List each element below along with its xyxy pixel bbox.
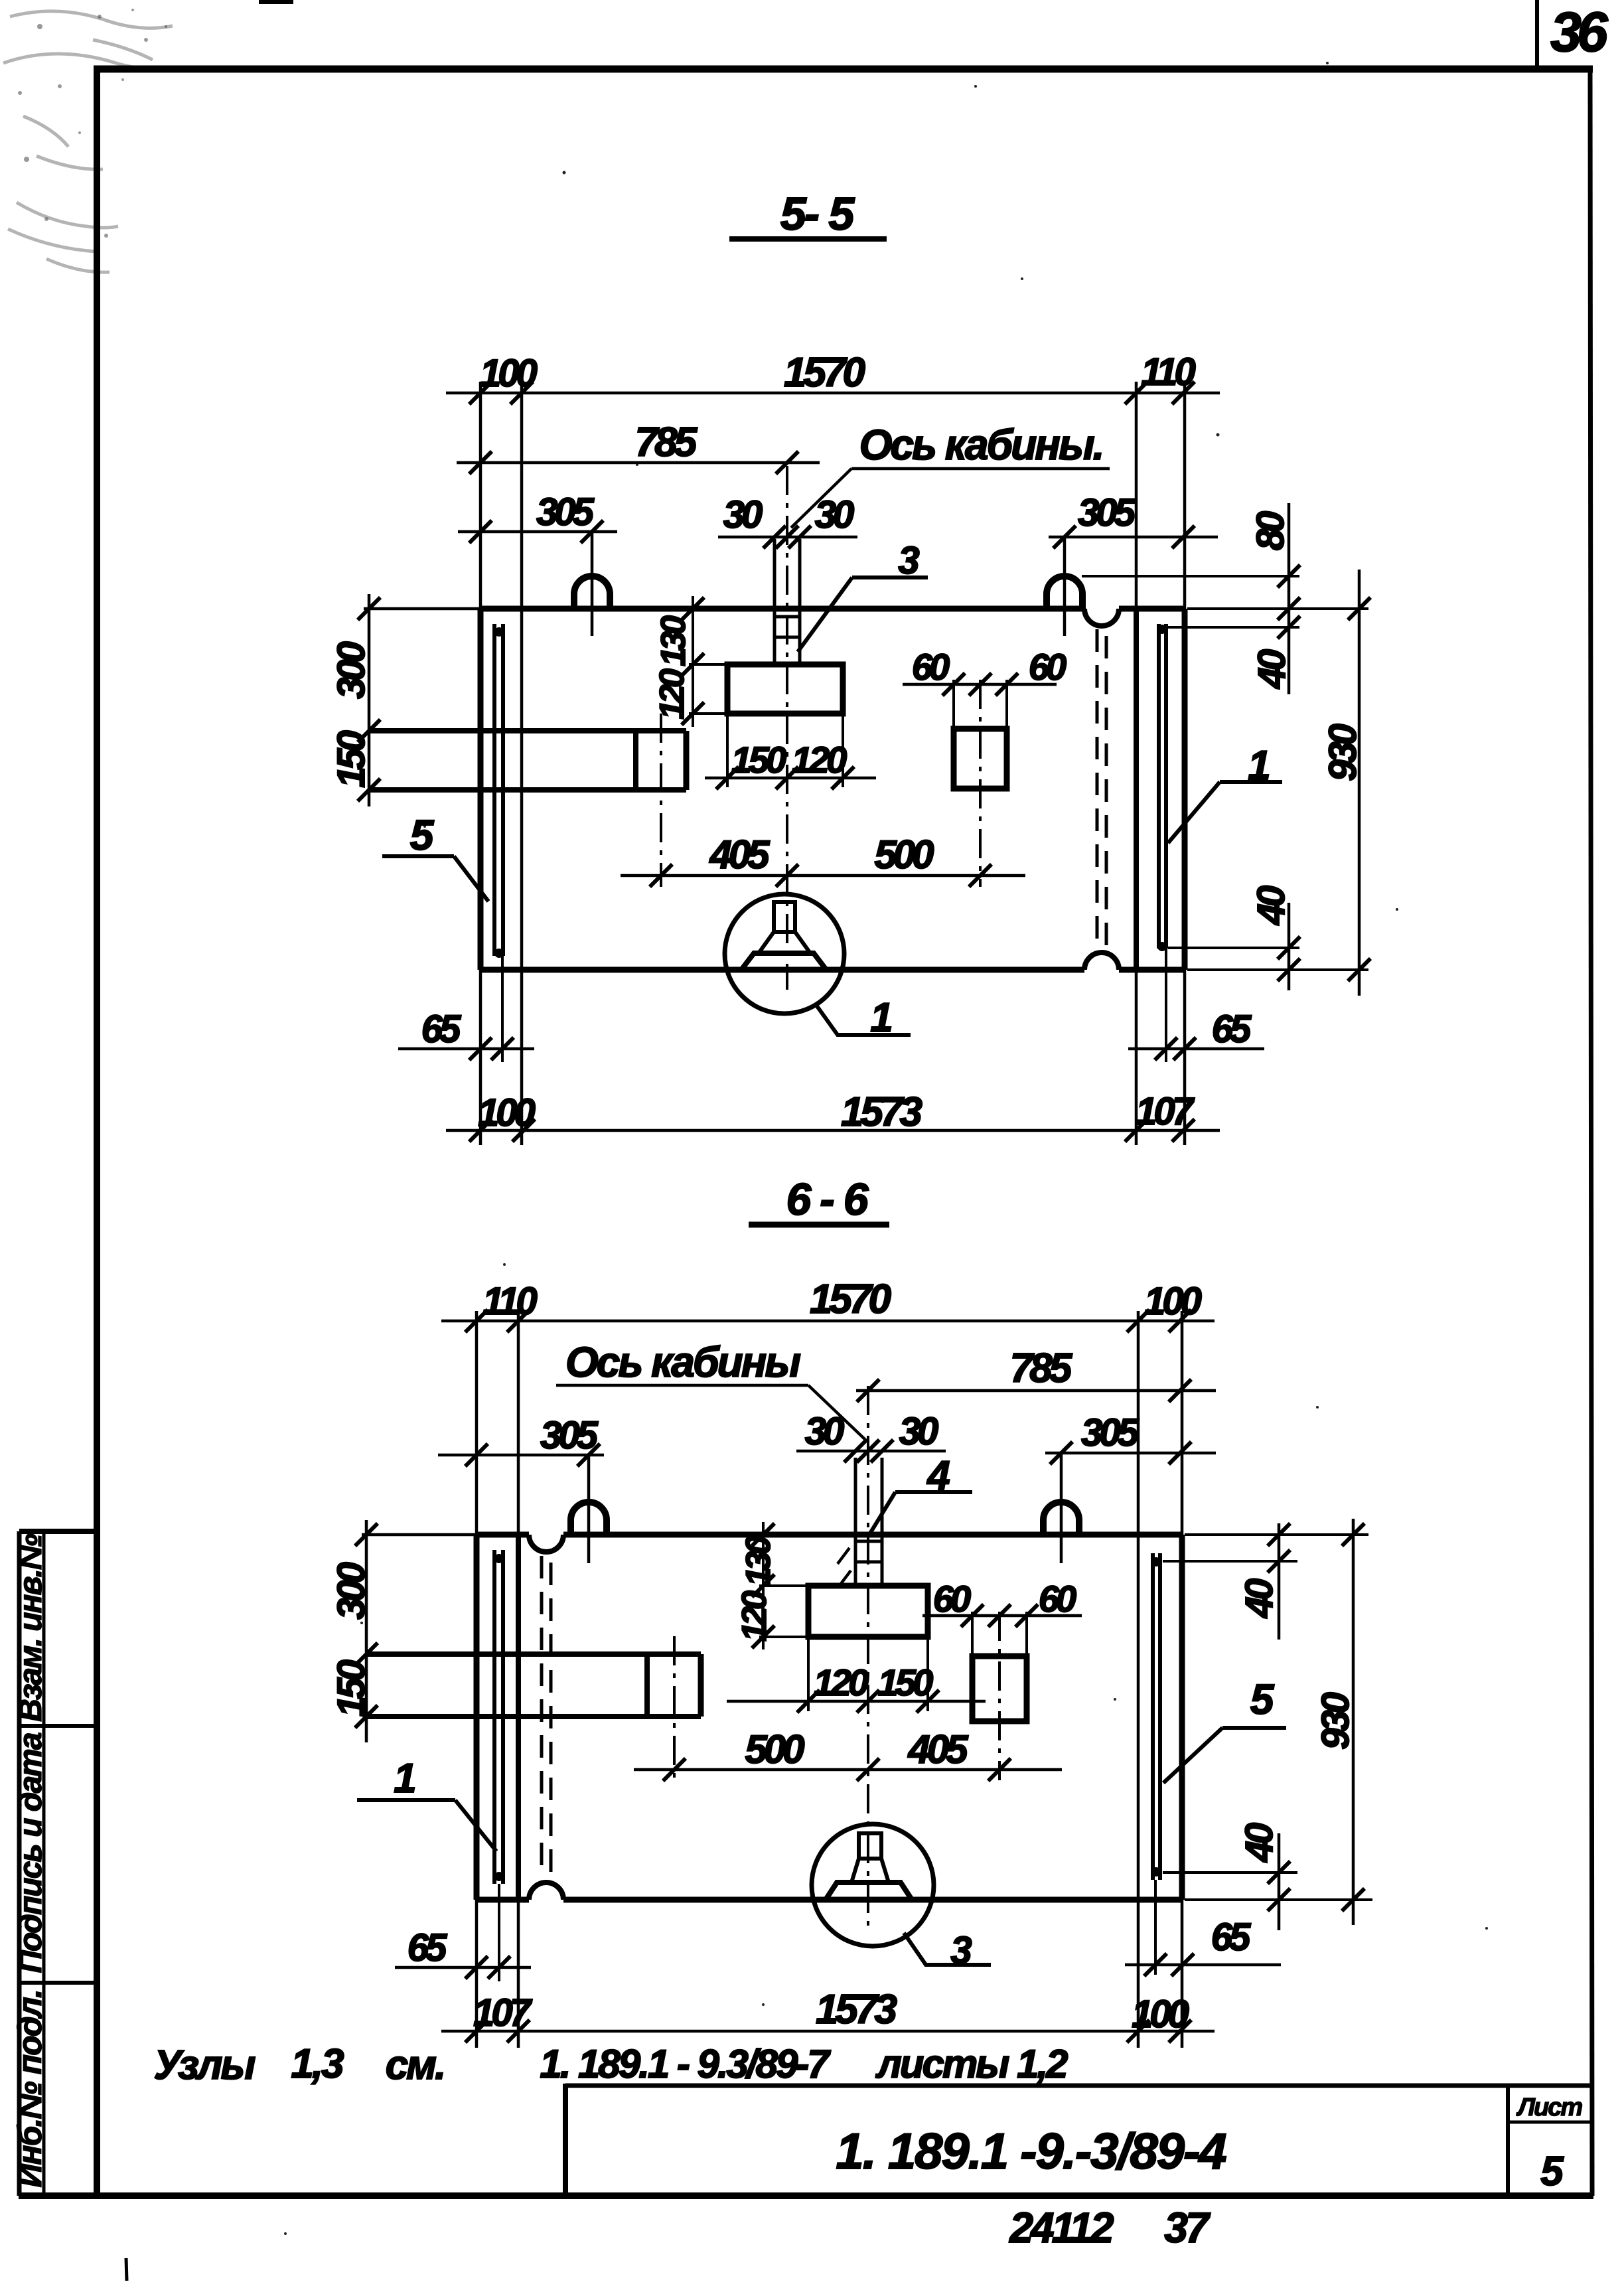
svg-text:24112: 24112 — [1009, 2204, 1114, 2252]
svg-text:Взам. инв.№: Взам. инв.№ — [13, 1533, 48, 1722]
svg-text:405: 405 — [907, 1727, 969, 1772]
svg-text:305: 305 — [1078, 491, 1136, 534]
svg-text:30: 30 — [805, 1410, 844, 1453]
svg-text:100: 100 — [480, 352, 538, 395]
svg-text:100: 100 — [478, 1091, 536, 1134]
svg-text:см.: см. — [386, 2042, 445, 2088]
svg-text:130: 130 — [654, 615, 693, 666]
svg-text:40: 40 — [1250, 649, 1293, 689]
svg-text:305: 305 — [1081, 1411, 1140, 1454]
svg-text:65: 65 — [407, 1926, 447, 1969]
svg-text:107: 107 — [1136, 1090, 1195, 1133]
svg-text:6 - 6: 6 - 6 — [786, 1174, 869, 1225]
svg-text:40: 40 — [1238, 1823, 1281, 1863]
svg-text:Ось кабины: Ось кабины — [565, 1338, 800, 1386]
svg-text:30: 30 — [899, 1410, 938, 1453]
svg-text:60: 60 — [933, 1578, 971, 1620]
svg-text:60: 60 — [1039, 1578, 1076, 1620]
svg-text:Ось кабины.: Ось кабины. — [859, 421, 1103, 469]
svg-text:150: 150 — [330, 1659, 373, 1717]
svg-text:500: 500 — [874, 832, 934, 877]
svg-text:110: 110 — [1141, 350, 1195, 394]
svg-text:300: 300 — [330, 1562, 373, 1620]
svg-text:1: 1 — [394, 1756, 415, 1801]
svg-text:305: 305 — [540, 1414, 599, 1457]
svg-text:Лист: Лист — [1516, 2094, 1582, 2121]
svg-text:107: 107 — [473, 1991, 533, 2034]
svg-text:785: 785 — [635, 420, 698, 465]
svg-text:110: 110 — [482, 1280, 537, 1323]
svg-text:65: 65 — [421, 1008, 461, 1051]
svg-text:1. 189.1 - 9.3/89-7: 1. 189.1 - 9.3/89-7 — [540, 2042, 831, 2086]
svg-text:5- 5: 5- 5 — [780, 188, 855, 240]
svg-text:500: 500 — [745, 1727, 804, 1772]
svg-text:150: 150 — [731, 739, 786, 781]
svg-text:1573: 1573 — [841, 1089, 922, 1135]
svg-text:1. 189.1 -9.-3/89-4: 1. 189.1 -9.-3/89-4 — [836, 2123, 1226, 2180]
svg-text:1: 1 — [870, 995, 891, 1041]
svg-text:36: 36 — [1550, 1, 1609, 63]
svg-text:40: 40 — [1238, 1578, 1281, 1618]
svg-text:Инб.№ подл.: Инб.№ подл. — [11, 1990, 48, 2187]
svg-text:305: 305 — [536, 491, 595, 534]
svg-text:37: 37 — [1164, 2204, 1211, 2252]
svg-text:65: 65 — [1211, 1916, 1251, 1959]
svg-text:80: 80 — [1249, 511, 1292, 550]
svg-text:100: 100 — [1144, 1280, 1202, 1323]
svg-text:30: 30 — [815, 493, 854, 536]
svg-text:300: 300 — [330, 641, 373, 699]
svg-text:Подпись и дата: Подпись и дата — [13, 1732, 48, 1973]
svg-text:листы 1,2: листы 1,2 — [875, 2042, 1068, 2086]
svg-text:60: 60 — [912, 646, 950, 688]
svg-text:930: 930 — [1314, 1692, 1357, 1750]
svg-text:Узлы: Узлы — [154, 2042, 256, 2088]
svg-text:405: 405 — [709, 832, 771, 877]
svg-text:785: 785 — [1010, 1345, 1073, 1391]
svg-text:30: 30 — [723, 493, 763, 536]
svg-text:120: 120 — [792, 739, 847, 781]
svg-text:150: 150 — [878, 1661, 933, 1703]
svg-text:60: 60 — [1029, 646, 1067, 688]
svg-text:130: 130 — [739, 1535, 778, 1586]
svg-text:65: 65 — [1212, 1008, 1252, 1051]
svg-text:1,3: 1,3 — [291, 2041, 344, 2087]
svg-text:100: 100 — [1132, 1993, 1189, 2036]
svg-text:120: 120 — [735, 1590, 774, 1642]
svg-text:40: 40 — [1250, 885, 1293, 925]
svg-text:3: 3 — [950, 1929, 972, 1972]
svg-text:120: 120 — [653, 668, 692, 720]
svg-text:1570: 1570 — [810, 1276, 891, 1322]
svg-text:1573: 1573 — [816, 1987, 897, 2032]
svg-text:930: 930 — [1321, 724, 1364, 781]
svg-text:150: 150 — [330, 730, 373, 788]
svg-text:1570: 1570 — [784, 350, 865, 396]
svg-text:120: 120 — [814, 1661, 869, 1703]
